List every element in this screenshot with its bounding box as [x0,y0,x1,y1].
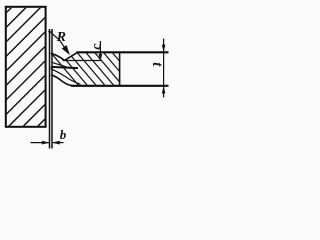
svg-text:c: c [89,43,104,50]
svg-text:R: R [56,30,66,45]
svg-text:b: b [60,127,67,142]
